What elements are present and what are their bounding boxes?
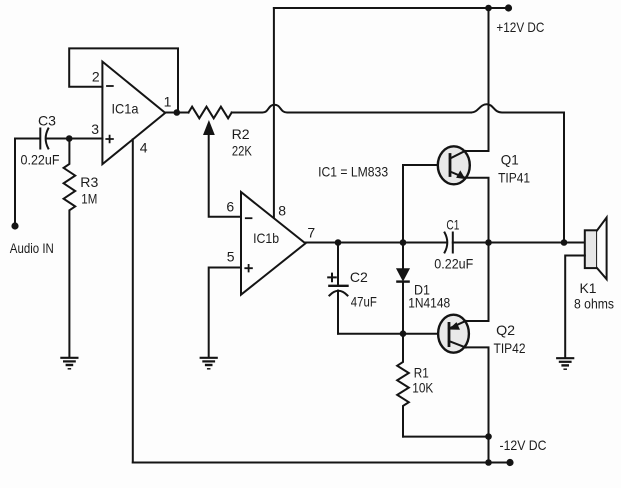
wire speaker lower terminal to ground [565,256,585,358]
svg-text:TIP42: TIP42 [494,340,526,356]
svg-text:Q2: Q2 [496,322,515,338]
wire hop over +12V drop then to right corner [471,104,564,112]
capacitor C1 [445,233,448,253]
node C2 branch junction [335,239,342,246]
op-amp minus plus marks IC1b [246,217,252,219]
svg-text:R1: R1 [414,365,429,381]
node bottom rail junction [485,459,492,466]
svg-text:K1: K1 [580,280,597,296]
diode D1 [402,243,404,270]
svg-text:2: 2 [92,68,100,84]
svg-text:8 ohms: 8 ohms [574,296,614,312]
capacitor C2 electrolytic [337,243,339,286]
wire Q2 emitter to output node [466,243,489,322]
capacitor C3 [15,138,40,140]
svg-text:22K: 22K [232,143,253,159]
svg-text:1: 1 [164,93,172,109]
wire Q2 collector down to -12V [466,347,489,462]
svg-text:8: 8 [278,203,286,219]
resistor R2 zigzag [189,107,232,119]
op-amp U1 IC1b [241,192,305,295]
wire audio input drop [14,139,16,226]
op-amp minus plus marks IC1a [107,85,113,87]
svg-text:IC1 = LM833: IC1 = LM833 [318,164,388,180]
svg-text:C1: C1 [446,217,459,233]
wire pin5 to ground [209,268,241,358]
svg-text:3: 3 [91,121,99,137]
svg-text:C2: C2 [350,269,368,285]
node emitter junction [485,239,492,246]
svg-text:5: 5 [227,248,235,264]
wire +12V top rail [274,7,508,9]
svg-text:TIP41: TIP41 [498,170,530,186]
ground below pin5 [201,357,217,359]
svg-text:IC1a: IC1a [112,101,139,117]
node D1 top junction [400,239,407,246]
plus sign of C2 [328,274,336,282]
wire right feedback vertical down to output [563,113,565,243]
svg-text:+12V DC: +12V DC [496,19,544,35]
wire C2 bottom to node [338,333,438,335]
svg-text:IC1b: IC1b [253,230,279,246]
node speaker junction [561,239,568,246]
wire pin8 vertical to +12V [273,8,275,218]
svg-text:47uF: 47uF [351,294,377,310]
svg-text:1N4148: 1N4148 [408,295,450,311]
svg-text:R3: R3 [80,174,98,190]
svg-text:4: 4 [140,140,148,156]
wire IC1b output line [305,242,446,244]
terminal +12V dot [505,4,512,11]
svg-text:7: 7 [307,224,315,240]
svg-text:6: 6 [226,198,234,214]
transistor Q1 TIP41 [438,146,470,184]
resistor R3 zigzag vertical [64,139,76,358]
svg-text:0.22uF: 0.22uF [21,152,60,168]
wire feedback loop IC1a output to pin 2 [69,48,178,112]
terminal -12V dot [506,459,513,466]
terminal Audio IN dot [11,222,18,229]
wire R2 to right with hop over pin8 line [232,105,471,113]
svg-text:Audio IN: Audio IN [10,240,54,256]
wire R1 bottom to -12V node [403,436,489,438]
svg-text:R2: R2 [232,126,250,142]
speaker K1 [585,230,597,268]
potentiometer wiper arrow of R2 [209,135,241,217]
wire -12V bottom rail [133,462,510,464]
op-amp U1 IC1a [102,62,165,165]
svg-text:10K: 10K [412,380,434,396]
resistor R1 zigzag vertical [397,334,409,437]
svg-text:1M: 1M [81,190,97,206]
wire Q1 base branch [403,165,438,243]
transistor Q2 TIP42 [438,315,469,353]
wire Q1 collector to +12V [465,150,489,152]
node IC1a output junction [174,109,181,116]
ground below R3 [61,357,77,359]
node -12V junction [485,433,492,440]
svg-text:C3: C3 [38,113,56,129]
wire Q1 emitter to output node [465,178,489,243]
node pin3 junction [66,135,73,142]
wire IC1a output to R2 [165,112,188,114]
node +12V junction [485,5,492,12]
svg-text:Q1: Q1 [501,151,519,167]
node D1 bottom junction [400,330,407,337]
svg-text:-12V DC: -12V DC [500,437,547,453]
wire +12V drop to Q1 collector [488,8,490,151]
wire pin4 to -12V bottom rail [132,139,134,462]
ground below speaker [557,357,573,359]
svg-text:0.22uF: 0.22uF [434,256,473,272]
